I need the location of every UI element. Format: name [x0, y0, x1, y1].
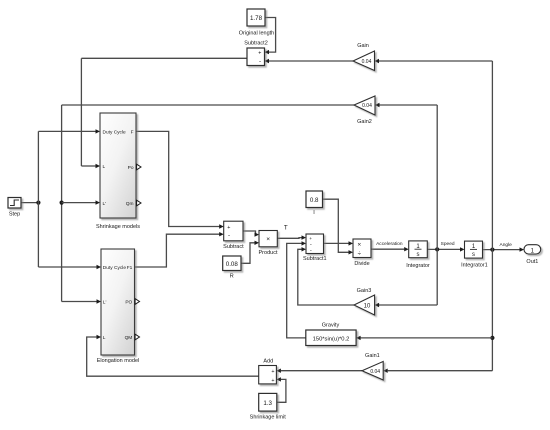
- wire: Angle net to Gain1 input: [388, 370, 493, 372]
- svg-text:Angle: Angle: [500, 242, 513, 248]
- svg-text:T: T: [284, 225, 288, 232]
- svg-text:÷: ÷: [358, 250, 362, 257]
- wire: Step net vertical x=38.4: [37, 131, 39, 267]
- svg-text:10: 10: [364, 303, 371, 309]
- wire: Angle net to Gravity input: [361, 337, 493, 339]
- sum block Subtract: [224, 221, 243, 241]
- constant 1.3 (Shrinkage limit): [259, 393, 277, 411]
- wire: R constant to Product input 2: [241, 243, 255, 263]
- unconnected output stub Po: [137, 164, 141, 170]
- node junction dot Angle net at Gravity row: [490, 336, 494, 340]
- svg-text:0.8: 0.8: [310, 197, 319, 204]
- integrator block Integrator1 (1/s): [465, 241, 483, 258]
- svg-text:0.08: 0.08: [226, 261, 239, 268]
- wire: Subtract2 output to Shrinkage L: [81, 57, 247, 59]
- unconnected output stub PO: [135, 299, 139, 305]
- wire: Speed net vertical x=437.2: [436, 105, 438, 305]
- svg-text:Add: Add: [263, 358, 273, 364]
- svg-text:Integrator: Integrator: [406, 263, 430, 269]
- wire: Product output to Subtract1 input 1: [277, 237, 302, 240]
- svg-text:Gain2: Gain2: [357, 119, 372, 125]
- svg-text:Out1: Out1: [526, 259, 538, 265]
- unconnected output stub Qm: [137, 200, 141, 206]
- subsystem Shrinkage models: [100, 113, 136, 218]
- wire: constant I 0.8 to Divide divisor input: [323, 199, 349, 252]
- svg-text:Original length: Original length: [239, 30, 274, 36]
- svg-text:F: F: [131, 130, 134, 136]
- svg-text:Speed: Speed: [441, 241, 455, 247]
- svg-text:Shrinkage limit: Shrinkage limit: [250, 414, 287, 420]
- svg-text:L: L: [103, 335, 106, 341]
- svg-text:1.3: 1.3: [263, 400, 272, 407]
- svg-text:+: +: [271, 378, 274, 384]
- wire: Gravity output to Subtract1 input 2: [287, 243, 306, 338]
- wire: constant 1.78 to Subtract2 plus input: [265, 18, 276, 53]
- svg-text:L: L: [103, 164, 106, 170]
- subsystem Elongation model: [101, 249, 135, 355]
- svg-text:Po: Po: [128, 165, 134, 171]
- wire: Subtract1 output to Divide times input: [324, 242, 349, 244]
- constant R (0.08): [223, 256, 241, 271]
- svg-text:s: s: [472, 252, 475, 258]
- svg-text:Qm: Qm: [126, 201, 134, 207]
- wire: Gain1 output to Add input 1: [281, 370, 362, 372]
- wire: Add output to Elongation L input: [87, 337, 259, 376]
- integrator block Integrator (1/s): [409, 241, 428, 258]
- svg-text:Subtract2: Subtract2: [244, 41, 268, 47]
- wire: Speed line Integrator to Integrator1: [427, 248, 460, 250]
- wire: Shrinkage F output to Subtract plus: [136, 131, 220, 226]
- wire: Gain2 output horizontal y=105: [62, 104, 354, 106]
- svg-text:0.04: 0.04: [362, 59, 372, 65]
- svg-text:Gain: Gain: [357, 43, 369, 49]
- svg-text:0.04: 0.04: [362, 103, 372, 109]
- svg-text:Duty Cycle: Duty Cycle: [103, 130, 127, 136]
- svg-text:-: -: [228, 232, 230, 239]
- svg-text:-: -: [259, 58, 261, 65]
- wire: Gain2 net vertical x=61.6: [61, 105, 63, 302]
- svg-text:I: I: [313, 210, 315, 216]
- svg-text:+: +: [258, 51, 261, 57]
- node junction dot Speed net: [435, 247, 439, 251]
- wire: Divide output Acceleration to Integrator: [371, 248, 404, 250]
- svg-text:QM: QM: [125, 335, 133, 341]
- svg-text:Product: Product: [259, 250, 278, 256]
- wire: Angle line Integrator1 to Out1: [483, 249, 521, 251]
- svg-text:×: ×: [357, 241, 361, 248]
- wire: Angle net top feedback y=61 into Gain input: [379, 60, 493, 62]
- wire: Gain output to Subtract2 minus input: [269, 60, 354, 62]
- wire: Gain2 net to Elongation L': [62, 301, 98, 303]
- node A junction dot on Step net: [36, 201, 40, 205]
- unconnected output stub QM: [135, 334, 139, 340]
- node junction dot Gain2 net at L' branch: [60, 201, 64, 205]
- svg-text:Gravity: Gravity: [322, 322, 340, 328]
- divide block Divide: [353, 239, 371, 258]
- wire: constant 1.3 to Add input 2: [277, 379, 286, 402]
- wire: Step net to Elongation Duty Cycle: [38, 266, 97, 268]
- svg-text:L': L': [103, 300, 107, 306]
- gain Gain2 (0.04): [354, 96, 375, 115]
- product block Product: [259, 231, 277, 247]
- svg-text:Shrinkage models: Shrinkage models: [96, 224, 140, 230]
- svg-text:Gain1: Gain1: [365, 353, 380, 359]
- wire: Elongation F1 output to Subtract minus: [135, 234, 220, 267]
- svg-text:Acceleration: Acceleration: [376, 241, 403, 247]
- wire: Step net to Shrinkage Duty Cycle: [38, 130, 96, 132]
- wire: Subtract output to Product input 1: [243, 231, 256, 235]
- constant I (0.8): [306, 191, 323, 208]
- svg-text:Step: Step: [9, 212, 20, 218]
- svg-text:150*sin(u)*0.2: 150*sin(u)*0.2: [313, 336, 350, 342]
- svg-text:1.78: 1.78: [250, 15, 263, 22]
- wire: Angle net vertical x=492.4: [491, 61, 493, 371]
- svg-text:Subtract1: Subtract1: [303, 256, 327, 262]
- svg-text:Duty Cycle: Duty Cycle: [103, 265, 127, 271]
- wire: Speed net to Gain2 input: [379, 104, 437, 106]
- svg-text:Gain3: Gain3: [357, 288, 372, 294]
- svg-text:+: +: [271, 369, 274, 375]
- svg-text:L': L': [103, 201, 107, 207]
- wire: Gain3 output to Subtract1 input 3: [298, 249, 354, 305]
- source block Step: [8, 198, 21, 209]
- svg-text:PO: PO: [125, 300, 132, 306]
- svg-text:×: ×: [266, 236, 270, 243]
- wire: Step output to junction A: [21, 202, 38, 204]
- svg-text:Elongation model: Elongation model: [97, 358, 140, 364]
- output port Out1: [524, 245, 541, 255]
- node junction dot Angle net at Speed row: [490, 248, 494, 252]
- svg-text:-: -: [310, 248, 312, 254]
- constant 1.78 (Original length): [247, 9, 265, 26]
- svg-text:0.04: 0.04: [370, 369, 380, 375]
- svg-text:s: s: [417, 252, 420, 258]
- svg-text:Divide: Divide: [354, 261, 369, 267]
- svg-text:R: R: [230, 273, 234, 279]
- wire: Gain2 net to Shrinkage L': [62, 202, 97, 204]
- svg-text:Subtract: Subtract: [223, 244, 244, 250]
- sum block Subtract1: [306, 234, 324, 254]
- svg-text:F1: F1: [127, 265, 133, 271]
- svg-text:+: +: [227, 225, 230, 231]
- svg-text:Integrator1: Integrator1: [461, 263, 488, 269]
- wire: Speed net to Gain3 input: [379, 304, 438, 306]
